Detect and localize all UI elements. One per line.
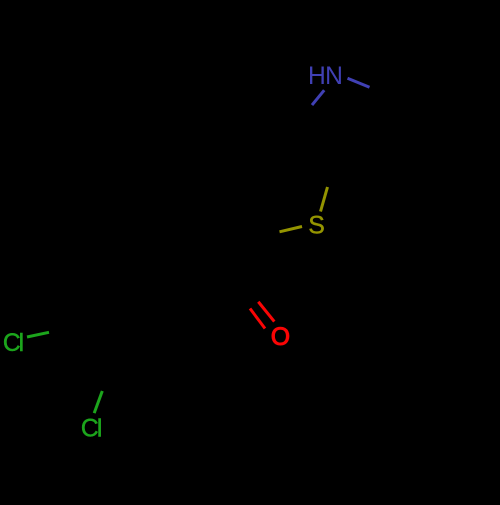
bond N-C2 [312,90,324,105]
bond S-CH2 (to methylene) [280,227,303,232]
svg-text:HN: HN [308,63,342,90]
bond N-C7a [348,78,370,87]
svg-text:Cl: Cl [3,330,23,357]
svg-text:S: S [308,212,324,239]
svg-text:Cl: Cl [81,415,101,442]
bond Cl-C3 [94,391,102,413]
svg-text:O: O [271,324,290,351]
bond Cl-C4 [27,332,49,337]
bond S-C3 (to indole side) [321,187,328,212]
bond C=O line 1 [258,302,274,322]
bond C=O line 2 [250,309,265,329]
